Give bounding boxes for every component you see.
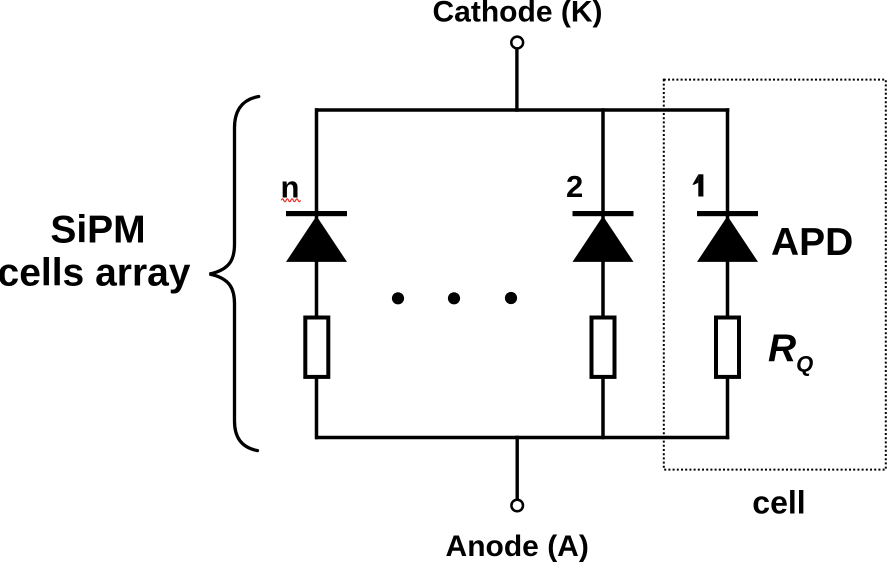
wire: top bus — [315, 108, 729, 112]
ellipsis dot 1 — [392, 292, 404, 304]
wire: branch n — [315, 108, 319, 439]
resistor R2 — [592, 318, 615, 377]
svg-text:RQ: RQ — [768, 327, 813, 377]
resistor Rn — [305, 318, 328, 377]
diode D2 — [573, 216, 634, 262]
svg-text:Anode (A): Anode (A) — [446, 530, 589, 562]
wire: branch 2 — [601, 108, 605, 439]
svg-text:2: 2 — [566, 169, 583, 204]
diode Dn — [286, 216, 347, 262]
ellipsis dot 3 — [505, 292, 517, 304]
svg-text:cells array: cells array — [0, 252, 191, 295]
ellipsis dot 2 — [448, 292, 460, 304]
svg-text:SiPM: SiPM — [50, 209, 145, 252]
diode Dn cathode bar — [286, 211, 347, 216]
svg-text:cell: cell — [752, 485, 805, 521]
brace (SiPM cells array) — [210, 97, 259, 451]
spellcheck squiggle under n — [281, 199, 300, 202]
wire: cathode stub — [515, 48, 518, 112]
svg-text:APD: APD — [771, 221, 853, 264]
wire: anode stub — [516, 436, 519, 500]
cathode terminal — [511, 37, 523, 49]
label: 1 (cell 1 index) — [692, 174, 703, 196]
wire: bottom bus — [315, 436, 729, 440]
anode terminal — [511, 500, 523, 512]
svg-text:Cathode (K): Cathode (K) — [433, 0, 603, 29]
diode D1 — [697, 216, 758, 262]
diode D2 cathode bar — [573, 211, 634, 216]
cell boundary box (dotted) — [664, 80, 886, 470]
resistor R1 (RQ) — [716, 318, 739, 377]
diode D1 cathode bar — [697, 211, 758, 216]
wire: branch 1 — [726, 108, 730, 439]
